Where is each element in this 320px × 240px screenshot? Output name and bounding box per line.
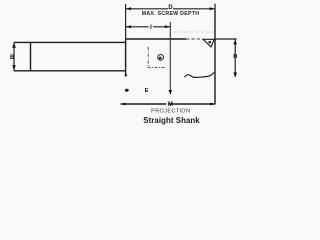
svg-text:B: B [10, 55, 15, 61]
svg-text:MAX. SCREW DEPTH: MAX. SCREW DEPTH [142, 11, 200, 17]
svg-text:H: H [233, 54, 237, 60]
svg-text:M: M [168, 102, 173, 108]
svg-text:PROJECTION: PROJECTION [151, 109, 190, 115]
svg-text:E: E [145, 88, 149, 94]
svg-text:Straight Shank: Straight Shank [143, 116, 200, 125]
